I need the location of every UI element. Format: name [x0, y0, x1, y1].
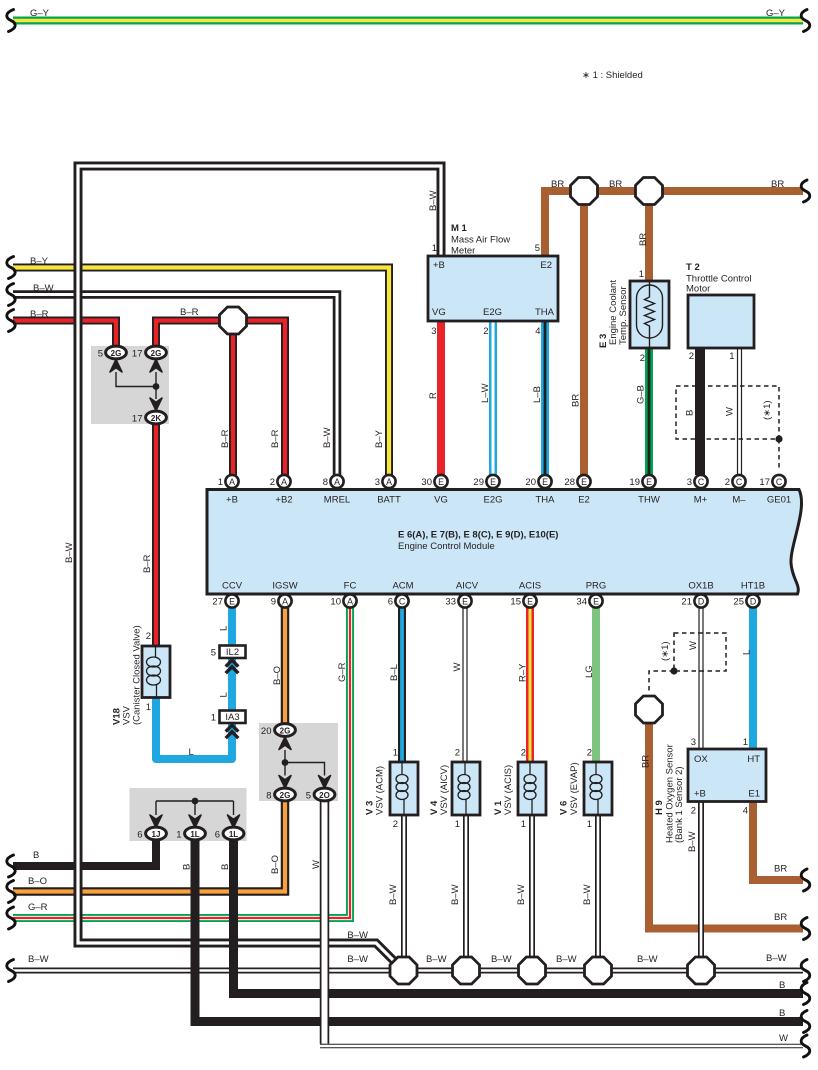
ECM bottom pin 15 E ACIS: [510, 594, 536, 607]
connector C oval 1L pin1: [176, 827, 205, 840]
connector A oval 2G pin17: [132, 346, 166, 359]
wire continuation symbol W right: [801, 1035, 810, 1057]
gray connector block B (2G/2O): [259, 723, 338, 801]
svg-text:B: B: [685, 410, 696, 416]
svg-text:HT: HT: [747, 754, 760, 765]
svg-text:1: 1: [587, 819, 592, 830]
svg-text:C: C: [736, 477, 743, 487]
wire G-R: ECM FC down, left to edge: [13, 607, 350, 918]
svg-text:A: A: [334, 477, 340, 487]
connector B oval 2O pin5: [306, 788, 335, 801]
wire B-L: ECM ACM to V3 pin1: [398, 607, 406, 762]
V18 VSV Canister Closed Valve box: [142, 646, 170, 698]
svg-text:G–B: G–B: [636, 385, 647, 404]
wire B-R from 2G pin17 to +B and +B2: [156, 321, 285, 476]
svg-text:D: D: [750, 597, 756, 607]
ECM top pin 20 E THA: [525, 475, 551, 488]
connector C oval 1J pin6: [137, 827, 166, 840]
svg-text:1L: 1L: [229, 830, 238, 839]
ECM bottom pin 34 E PRG: [576, 594, 602, 607]
svg-text:B–W: B–W: [64, 542, 75, 563]
svg-text:B–O: B–O: [270, 855, 281, 874]
connector block C internals: [156, 801, 234, 815]
wire B: 1J to left edge: [13, 840, 156, 866]
ECM top pin 17 C GE01: [759, 475, 785, 488]
svg-text:VSV (ACIS): VSV (ACIS): [503, 765, 514, 815]
svg-text:E: E: [593, 597, 599, 607]
connector block A internals: arrows and link: [116, 372, 156, 399]
inline connector IA3 pin1: [211, 711, 246, 724]
svg-text:20: 20: [261, 726, 272, 737]
svg-text:2: 2: [393, 819, 398, 830]
svg-text:Meter: Meter: [451, 246, 475, 257]
svg-text:BR: BR: [638, 233, 649, 246]
wire continuation symbol BR shield right: [801, 918, 810, 940]
svg-text:21: 21: [681, 597, 692, 608]
svg-text:B–Y: B–Y: [374, 429, 385, 448]
svg-text:2: 2: [689, 351, 694, 362]
svg-text:2G: 2G: [280, 791, 291, 800]
svg-text:2G: 2G: [151, 349, 162, 358]
svg-text:4: 4: [743, 806, 748, 817]
V6 VSV (EVAP) box: [584, 762, 612, 815]
V3 VSV (ACM) box: [390, 762, 418, 815]
svg-text:1: 1: [455, 819, 460, 830]
svg-text:B–W: B–W: [450, 884, 461, 905]
svg-text:L: L: [219, 626, 230, 631]
junction octagon BR 2: [636, 178, 663, 205]
wire B-O: ECM IGSW down to 2G pin20: [281, 607, 290, 725]
wire continuation symbol B right 2: [801, 1011, 810, 1033]
wire BR branch to E3 pin1: [645, 191, 653, 281]
svg-text:B–W: B–W: [687, 831, 698, 852]
svg-text:B–R: B–R: [220, 429, 231, 448]
svg-text:OX: OX: [694, 754, 708, 765]
svg-text:Temp. Sensor: Temp. Sensor: [618, 286, 629, 345]
svg-text:E: E: [646, 477, 652, 487]
dashed shield box at T2: [676, 386, 783, 468]
svg-text:E: E: [527, 597, 533, 607]
svg-text:VSV (ACM): VSV (ACM): [375, 766, 386, 815]
svg-text:VG: VG: [434, 495, 448, 506]
junction octagon B-R near +B: [220, 307, 247, 334]
svg-text:3: 3: [375, 477, 380, 488]
svg-text:BR: BR: [551, 179, 564, 190]
V4 VSV (AICV) box: [452, 762, 480, 815]
svg-text:L–B: L–B: [532, 386, 543, 403]
svg-text:4: 4: [535, 326, 540, 337]
svg-text:E1: E1: [748, 789, 760, 800]
svg-text:1: 1: [218, 477, 223, 488]
ECM bottom pin 33 E AICV: [445, 594, 471, 607]
wire W: ECM AICV to V4 pin2: [462, 607, 467, 762]
wire B: 1L middle down and right to edge: [195, 840, 803, 1022]
wire B-W: V1 pin1 to ground bus: [529, 815, 535, 971]
svg-text:15: 15: [510, 597, 521, 608]
svg-text:THA: THA: [536, 495, 556, 506]
wire continuation symbol G-Y right: [801, 10, 810, 32]
svg-text:B: B: [779, 980, 785, 991]
svg-text:3: 3: [431, 326, 436, 337]
connector B oval 2G pin8: [266, 788, 295, 801]
wire continuation symbol B-W bus left: [7, 960, 15, 982]
wire B-R from 2K to V18 pin2: [152, 424, 160, 647]
junction octagon bus V1: [519, 957, 546, 984]
svg-text:2: 2: [146, 631, 151, 642]
svg-text:(Bank 1 Sensor 2): (Bank 1 Sensor 2): [674, 766, 685, 843]
svg-text:2: 2: [483, 326, 488, 337]
svg-text:B–W: B–W: [516, 884, 527, 905]
svg-text:A: A: [281, 477, 287, 487]
svg-text:25: 25: [733, 597, 744, 608]
svg-text:5: 5: [535, 243, 540, 254]
svg-text:Motor: Motor: [686, 284, 710, 295]
wire L-B: M1 THA to ECM THA: [541, 321, 549, 475]
svg-text:E2G: E2G: [483, 307, 502, 318]
M1 Mass Air Flow Meter box: [428, 256, 558, 321]
junction octagon H9 shield: [636, 696, 663, 723]
svg-text:B–R: B–R: [180, 307, 199, 318]
wire B-W: V4 pin1 to ground bus: [463, 815, 469, 971]
ECM bottom pin 21 D OX1B: [681, 594, 707, 607]
svg-text:B–O: B–O: [28, 876, 47, 887]
svg-text:B–R: B–R: [142, 554, 153, 573]
svg-text:VSV (EVAP): VSV (EVAP): [569, 762, 580, 815]
svg-text:E2: E2: [540, 260, 552, 271]
svg-text:B–W: B–W: [491, 954, 512, 965]
svg-text:3: 3: [687, 477, 692, 488]
svg-text:MREL: MREL: [324, 495, 350, 506]
chevrons below IA3: [226, 725, 239, 738]
svg-text:FC: FC: [344, 581, 357, 592]
svg-text:BR: BR: [774, 912, 787, 923]
svg-text:BR: BR: [771, 179, 784, 190]
svg-text:34: 34: [576, 597, 587, 608]
wire continuation symbol B-O left: [7, 881, 15, 903]
wire continuation symbol B-R left: [7, 310, 15, 332]
svg-text:C: C: [399, 597, 406, 607]
connector C oval 1L pin6: [215, 827, 244, 840]
svg-text:8: 8: [323, 477, 328, 488]
inline connector IL2 pin5: [211, 646, 246, 659]
dashed shield box at OX1B: [649, 633, 726, 694]
svg-text:BR: BR: [609, 179, 622, 190]
svg-text:PRG: PRG: [586, 581, 607, 592]
svg-text:Engine Control Module: Engine Control Module: [398, 541, 495, 552]
svg-text:W: W: [779, 1033, 788, 1044]
svg-text:VSV (AICV): VSV (AICV): [439, 765, 450, 815]
svg-text:OX1B: OX1B: [688, 581, 713, 592]
svg-text:B–W: B–W: [347, 930, 368, 941]
svg-text:20: 20: [525, 477, 536, 488]
svg-text:6: 6: [215, 830, 220, 841]
svg-text:B: B: [33, 850, 39, 861]
svg-text:L: L: [742, 650, 753, 655]
svg-text:B–W: B–W: [33, 283, 54, 294]
wire G-B: E3 pin2 to ECM THW: [645, 348, 653, 475]
wire B-O: 2G pin8 down, left to edge: [13, 800, 285, 892]
ECM top pin 8 A MREL: [323, 475, 344, 488]
svg-text:G–R: G–R: [28, 902, 48, 913]
wire L-W: M1 E2G to ECM E2G: [489, 321, 497, 475]
chevrons below IL2: [226, 660, 239, 673]
svg-text:2G: 2G: [280, 727, 291, 736]
ECM top pin 29 E E2G: [473, 475, 499, 488]
wire W: ECM OX1B to H9 OX: [698, 607, 703, 749]
svg-text:B: B: [220, 864, 231, 870]
svg-text:∗ 1 : Shielded: ∗ 1 : Shielded: [582, 70, 643, 81]
wire BR: shield octagon down and right to edge: [649, 722, 803, 929]
svg-text:27: 27: [212, 597, 223, 608]
svg-text:IGSW: IGSW: [272, 581, 297, 592]
svg-text:B–W: B–W: [426, 954, 447, 965]
svg-text:1: 1: [211, 713, 216, 724]
svg-text:IA3: IA3: [225, 712, 239, 723]
wire B-Y to BATT: [13, 268, 389, 476]
svg-text:ACIS: ACIS: [519, 581, 541, 592]
svg-text:5: 5: [98, 349, 103, 360]
svg-text:E2: E2: [578, 495, 590, 506]
svg-text:THA: THA: [535, 307, 555, 318]
ECM bottom pin 10 A FC: [330, 594, 356, 607]
connector B oval 2G pin20: [261, 724, 295, 737]
wire continuation symbol B-W bus right: [801, 960, 810, 982]
svg-text:BR: BR: [571, 394, 582, 407]
svg-text:B–W: B–W: [322, 427, 333, 448]
svg-text:B–R: B–R: [30, 309, 49, 320]
svg-text:2: 2: [725, 477, 730, 488]
svg-text:ACM: ACM: [392, 581, 413, 592]
wire continuation symbol B right 1: [801, 983, 810, 1005]
ECM bottom pin 9 A IGSW: [271, 594, 292, 607]
svg-text:29: 29: [473, 477, 484, 488]
svg-text:W: W: [688, 641, 699, 650]
svg-text:Mass Air Flow: Mass Air Flow: [451, 235, 510, 246]
svg-text:1: 1: [432, 243, 437, 254]
wire L: ECM CCV via IL2/IA3 to V18 pin1: [156, 607, 232, 759]
svg-text:(∗1): (∗1): [660, 641, 671, 661]
svg-text:E: E: [542, 477, 548, 487]
svg-text:1: 1: [176, 830, 181, 841]
wire B-W ground bus: [13, 968, 803, 974]
H9 Heated Oxygen Sensor box: [688, 749, 766, 802]
svg-text:BR: BR: [641, 755, 652, 768]
ECM top pin 30 E VG: [421, 475, 447, 488]
ECM top pin 3 A BATT: [375, 475, 396, 488]
svg-text:E: E: [490, 477, 496, 487]
svg-text:B–R: B–R: [270, 429, 281, 448]
ECM top pin 3 C M+: [687, 475, 708, 488]
svg-text:1: 1: [521, 819, 526, 830]
wire B-R to 2G pin5: [13, 321, 116, 348]
svg-text:2O: 2O: [319, 791, 330, 800]
wire continuation symbol B left: [7, 855, 15, 877]
svg-text:V 6: V 6: [559, 801, 570, 815]
svg-text:M 1: M 1: [451, 223, 468, 234]
svg-text:6: 6: [137, 830, 142, 841]
ECM bottom pin 27 E CCV: [212, 594, 238, 607]
svg-text:2: 2: [640, 353, 645, 364]
wire continuation symbol BR E1 right: [801, 869, 810, 891]
svg-text:30: 30: [421, 477, 432, 488]
svg-text:1L: 1L: [190, 830, 199, 839]
svg-text:2G: 2G: [111, 349, 122, 358]
svg-text:2: 2: [455, 748, 460, 759]
svg-text:1: 1: [743, 737, 748, 748]
svg-text:E: E: [581, 477, 587, 487]
svg-text:33: 33: [445, 597, 456, 608]
svg-text:2: 2: [270, 477, 275, 488]
svg-text:2: 2: [691, 806, 696, 817]
junction octagon BR 1: [571, 178, 598, 205]
svg-text:17: 17: [759, 477, 770, 488]
svg-text:5: 5: [306, 791, 311, 802]
svg-text:1: 1: [393, 748, 398, 759]
gray connector block C (1J/1L): [130, 788, 247, 841]
svg-text:B–Y: B–Y: [30, 256, 49, 267]
wire B-W: H9 +B to ground bus: [698, 801, 704, 971]
wire W: T2 pin1 to ECM M-: [737, 348, 742, 475]
svg-text:M+: M+: [694, 495, 708, 506]
wire BR main: M1 E2 up and across to right edge: [545, 191, 803, 256]
gray connector block A (2G/2K): [91, 346, 169, 424]
wire B-W to MREL: [13, 295, 337, 476]
svg-text:B–W: B–W: [556, 954, 577, 965]
svg-text:B–W: B–W: [582, 884, 593, 905]
T2 Throttle Control Motor box: [688, 295, 754, 348]
junction octagon bus V3: [390, 957, 417, 984]
svg-text:LG: LG: [584, 665, 595, 678]
svg-text:G–Y: G–Y: [30, 8, 50, 19]
svg-text:BR: BR: [774, 864, 787, 875]
connector A oval 2K pin17: [132, 411, 166, 424]
svg-text:1: 1: [146, 702, 151, 713]
wire continuation symbol B-W left: [7, 284, 15, 306]
wire B: 1L right down and right to edge: [234, 840, 804, 994]
ECM top pin 2 A +B2: [270, 475, 291, 488]
wire continuation symbol BR top right: [801, 180, 810, 202]
svg-text:W: W: [452, 663, 463, 672]
svg-text:G–R: G–R: [337, 662, 348, 682]
svg-text:B–W: B–W: [428, 190, 439, 211]
E3 Engine Coolant Temp Sensor box: [630, 281, 669, 348]
svg-text:B: B: [182, 864, 193, 870]
wire BR: H9 E1 down and right to edge: [753, 801, 803, 880]
svg-text:B–W: B–W: [637, 954, 658, 965]
svg-text:3: 3: [691, 737, 696, 748]
svg-text:8: 8: [266, 791, 271, 802]
svg-text:E: E: [462, 597, 468, 607]
svg-text:E: E: [229, 597, 235, 607]
svg-text:H 9: H 9: [654, 800, 665, 815]
svg-text:IL2: IL2: [226, 647, 239, 658]
wire B-W: V3 pin2 to ground bus: [401, 815, 407, 971]
svg-text:B–W: B–W: [388, 884, 399, 905]
svg-text:B: B: [779, 1008, 785, 1019]
wire continuation symbol G-Y left: [7, 10, 15, 32]
svg-text:R–Y: R–Y: [518, 663, 529, 682]
ECM top pin 1 A +B: [218, 475, 239, 488]
wire G-Y top: [13, 17, 803, 25]
svg-text:A: A: [347, 597, 353, 607]
svg-text:17: 17: [132, 349, 143, 360]
svg-text:+B: +B: [226, 495, 238, 506]
svg-text:M–: M–: [732, 495, 746, 506]
svg-text:(∗1): (∗1): [762, 400, 773, 420]
junction octagon bus V6: [585, 957, 612, 984]
wire B-W: V6 pin1 to ground bus: [595, 815, 601, 971]
svg-text:L: L: [189, 747, 194, 758]
svg-text:CCV: CCV: [222, 581, 243, 592]
wire W: 2O pin5 down and right to edge: [320, 800, 803, 1046]
svg-text:C: C: [776, 477, 783, 487]
svg-text:1J: 1J: [152, 830, 161, 839]
svg-text:R: R: [428, 392, 439, 399]
wire R-Y: ECM ACIS to V1 pin2: [526, 607, 534, 762]
wire continuation symbol B-Y left: [7, 257, 15, 279]
svg-text:A: A: [229, 477, 235, 487]
svg-text:W: W: [725, 407, 736, 416]
ECM bottom pin 6 C ACM: [388, 594, 409, 607]
svg-text:GE01: GE01: [767, 495, 791, 506]
connector block B internals: [285, 750, 325, 776]
svg-text:10: 10: [330, 597, 341, 608]
junction octagon bus V4: [453, 957, 480, 984]
svg-text:B–W: B–W: [28, 954, 49, 965]
wire LG: ECM PRG to V6 pin2: [592, 607, 600, 762]
svg-text:B–L: B–L: [389, 664, 400, 681]
ECM top pin 28 E E2: [564, 475, 590, 488]
svg-text:D: D: [698, 597, 704, 607]
wire R: M1 VG to ECM VG: [437, 321, 445, 475]
svg-text:2: 2: [521, 748, 526, 759]
V1 VSV (ACIS) box: [518, 762, 546, 815]
svg-text:E: E: [438, 477, 444, 487]
svg-text:VG: VG: [432, 307, 446, 318]
svg-text:E 6(A), E 7(B), E 8(C), E 9(D): E 6(A), E 7(B), E 8(C), E 9(D), E10(E): [398, 530, 558, 541]
connector A oval 2G pin5: [98, 346, 127, 359]
wire L: ECM HT1B to H9 HT: [749, 607, 757, 749]
svg-text:+B2: +B2: [275, 495, 292, 506]
ECM bottom pin 25 D HT1B: [733, 594, 759, 607]
ECM top pin 2 C M-: [725, 475, 746, 488]
svg-text:L: L: [219, 692, 230, 697]
svg-text:1: 1: [639, 269, 644, 280]
svg-text:AICV: AICV: [456, 581, 479, 592]
svg-text:A: A: [386, 477, 392, 487]
svg-text:L–W: L–W: [480, 383, 491, 403]
ECM box E6/E7/E8/E9/E10: [207, 490, 802, 595]
svg-text:W: W: [311, 860, 322, 869]
svg-text:B–W: B–W: [347, 954, 368, 965]
svg-text:2: 2: [587, 748, 592, 759]
svg-text:19: 19: [629, 477, 640, 488]
svg-text:B–O: B–O: [272, 666, 283, 685]
svg-text:A: A: [282, 597, 288, 607]
svg-text:G–Y: G–Y: [766, 8, 786, 19]
svg-text:17: 17: [132, 414, 143, 425]
wire BR branch to ECM E2: [580, 191, 588, 475]
svg-text:(Canister Closed Valve): (Canister Closed Valve): [132, 625, 143, 725]
svg-text:5: 5: [211, 648, 216, 659]
svg-text:2K: 2K: [151, 414, 161, 423]
svg-text:HT1B: HT1B: [741, 581, 765, 592]
svg-text:+B: +B: [694, 789, 706, 800]
svg-text:28: 28: [564, 477, 575, 488]
svg-text:9: 9: [271, 597, 276, 608]
svg-text:1: 1: [729, 351, 734, 362]
svg-text:BATT: BATT: [377, 495, 401, 506]
